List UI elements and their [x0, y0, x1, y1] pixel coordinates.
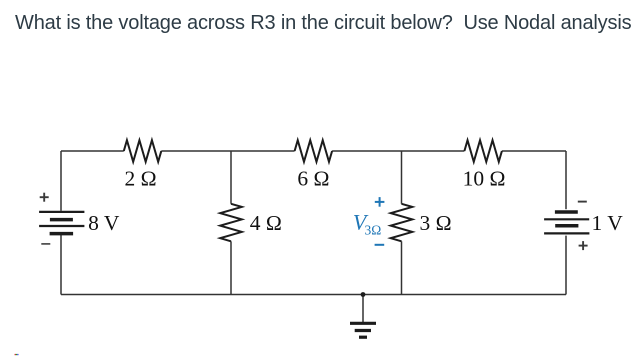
- wire right vertical lower: [565, 236, 567, 295]
- svg-text:3 Ω: 3 Ω: [420, 211, 452, 235]
- svg-text:8 V: 8 V: [88, 211, 120, 235]
- wire between R 2ohm and node B: [161, 150, 294, 152]
- battery 1V bars: [544, 212, 589, 233]
- svg-text:10 Ω: 10 Ω: [463, 167, 506, 191]
- wire right vertical upper: [565, 151, 567, 209]
- V3ohm minus sign: [375, 244, 385, 246]
- wire node C vertical upper: [401, 151, 403, 204]
- wire bottom: [61, 294, 566, 296]
- wire ground stem: [362, 295, 364, 323]
- resistor R3 3ohm vertical zigzag: [391, 204, 413, 242]
- resistor 6ohm zigzag: [295, 140, 333, 162]
- resistor 2ohm zigzag: [124, 140, 162, 162]
- ground junction node dot: [361, 292, 366, 297]
- ground symbol bars: [350, 323, 376, 337]
- svg-text:2 Ω: 2 Ω: [124, 167, 156, 191]
- wire node B vertical upper: [230, 151, 232, 204]
- title text: [15, 12, 631, 35]
- battery 8V plus sign: [40, 193, 49, 202]
- svg-text:1 V: 1 V: [592, 211, 624, 235]
- svg-text:3Ω: 3Ω: [365, 223, 382, 238]
- V3ohm plus sign: [375, 197, 385, 207]
- wire between R 10ohm and right corner: [502, 150, 566, 152]
- wire top: node A to node B to node C to right, with gaps for resistors: [61, 151, 566, 322]
- battery 1V minus sign: [578, 201, 587, 203]
- resistor 10ohm zigzag: [464, 140, 502, 162]
- battery 8V bars: [39, 212, 84, 234]
- stray mark bottom-left: [15, 354, 19, 355]
- battery 1V plus sign: [579, 241, 588, 250]
- wire left vertical lower: [60, 235, 62, 295]
- battery 8V minus sign: [41, 243, 50, 245]
- wire top-left segment: [61, 150, 124, 152]
- wire node B vertical lower: [230, 241, 232, 294]
- wire node C vertical lower: [401, 241, 403, 294]
- svg-text:6 Ω: 6 Ω: [297, 167, 329, 191]
- wire between R 6ohm and node C: [332, 150, 464, 152]
- wire left vertical upper: [60, 151, 62, 211]
- resistor 4ohm vertical zigzag: [220, 204, 242, 242]
- svg-text:4 Ω: 4 Ω: [250, 211, 282, 235]
